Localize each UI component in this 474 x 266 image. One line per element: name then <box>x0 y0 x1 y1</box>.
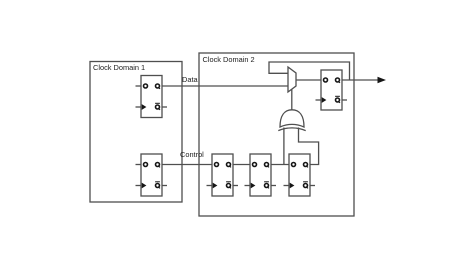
wire: FF4 Q to FF5 D <box>271 164 289 166</box>
svg-text:Control: Control <box>180 150 204 159</box>
Clock Domain 2 boundary box <box>199 53 354 216</box>
output arrowhead <box>378 77 387 83</box>
wire: Data net from FF1 Q to mux M1 lower input <box>162 85 289 87</box>
flip-flop FF4 (synchronizer stage 2) <box>245 154 277 196</box>
flip-flop FF5 (edge detect register) <box>284 154 316 196</box>
flip-flop FF2 (Clock Domain 1 control register) <box>136 154 168 196</box>
svg-text:Clock Domain 2: Clock Domain 2 <box>203 55 255 64</box>
svg-text:Clock Domain 1: Clock Domain 1 <box>93 63 145 72</box>
wire: XOR G1 left input tap from FF4-FF5 net <box>283 128 285 165</box>
svg-text:Data: Data <box>182 75 199 84</box>
flip-flop FF1 (Clock Domain 1 data register) <box>136 76 168 118</box>
wire: mux M1 output to FF6 D <box>296 79 321 81</box>
XOR gate G1 (edge detector, points up) <box>278 110 305 131</box>
wire: FF5 Q to XOR G1 right input <box>299 128 319 165</box>
wire: FF6 Q output net <box>342 79 379 81</box>
wire: XOR G1 output to mux M1 select <box>291 89 293 111</box>
Clock Domain 1 boundary box <box>90 62 182 203</box>
mux M1 (2:1 recirculation mux) <box>288 67 296 92</box>
wire: Control net from FF2 Q to FF3 D <box>162 164 212 166</box>
flip-flop FF6 (output capture register) <box>316 70 348 110</box>
flip-flop FF3 (synchronizer stage 1) <box>207 154 239 196</box>
wire: FF3 Q to FF4 D <box>233 164 250 166</box>
wire: feedback from FF6 Q net to mux M1 upper input <box>269 62 350 80</box>
